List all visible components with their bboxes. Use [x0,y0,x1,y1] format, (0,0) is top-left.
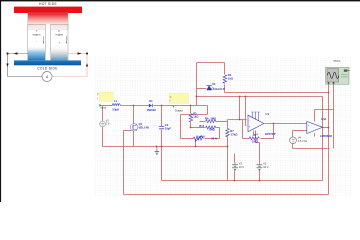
wire bottom right [52,76,87,78]
svg-text:1 V: 1 V [106,122,110,125]
battery V4 [290,137,297,144]
svg-text:TL431ACLP: TL431ACLP [210,87,225,91]
svg-text:D1: D1 [149,99,153,103]
potentiometer R12 [194,137,204,140]
wire: gate drive right riser [328,85,330,195]
svg-text:1N4032: 1N4032 [147,108,157,112]
n column carrier arrow [43,36,45,42]
wire: gate drive vertical [123,131,125,195]
resistor R5 (vertical) [189,114,193,122]
svg-text:V3: V3 [239,162,243,166]
wire: TL431 stub [197,88,207,90]
wire: middle block top [181,114,208,116]
frame left border [0,0,1,202]
junction node at (195.5,146.5) [195,146,197,148]
capacitor C2 [159,125,164,127]
svg-text:HOT SIDE: HOT SIDE [39,2,57,6]
wire: U1 feedback down [273,124,275,139]
junction node at (161.5,146.5) [161,146,163,148]
wire: middle block left [180,115,182,139]
junction node at (328.5,92.5) [328,92,330,94]
wire: U1 plus stub [246,125,247,127]
wire: R13 left stub [191,127,206,129]
wire: V1 top lead [102,106,104,122]
svg-text:1MΩ: 1MΩ [252,139,259,143]
wire right horizontal [68,53,87,55]
battery V3 [232,164,238,166]
svg-text:Q1: Q1 [139,122,143,126]
svg-text:10 V: 10 V [263,165,269,169]
junction node at (328.5,127.5) [328,127,330,129]
svg-text:LM358AD: LM358AD [320,134,332,138]
wire: Q1 source [133,131,135,147]
mosfet Q1 [130,124,137,131]
probe Output marker [172,105,174,107]
wire: C2 bottom lead [161,130,163,147]
wire: V3 top lead [234,154,236,163]
wire: main top net [101,105,113,107]
wire: R9 top lead [227,120,229,129]
wire: inner bottom net left riser [161,147,163,181]
svg-text:L1: L1 [114,99,118,103]
op-amp U1 pins [252,112,260,135]
svg-text:Output: Output [175,108,183,112]
wire: middle riser [219,128,221,139]
svg-text:U4A: U4A [321,117,326,121]
junction node at (259.5,180.5) [259,180,261,182]
wire right vertical [86,54,88,77]
svg-text:-: - [308,129,309,133]
svg-text:OP07DP: OP07DP [265,132,276,136]
wire: R5 bottom lead [190,123,192,128]
wire: V4 bottom lead [292,144,294,149]
svg-text:V2: V2 [263,162,267,166]
wire: inner bottom net [162,180,323,182]
wire: U4A output [323,127,329,129]
hot plate [14,7,82,13]
wire: pot tap to rail [195,140,197,147]
wire: R2 left riser [242,120,244,139]
probe Input: yellow box 1 [100,92,114,101]
wire: sense net horizontal [197,96,323,98]
svg-text:U1: U1 [266,112,270,116]
resistor R4 (vertical) [223,75,227,83]
wire: R6 right stub [216,121,228,123]
wire: U1 minus stub [228,119,247,121]
svg-text:region: region [33,33,41,37]
current arrow left-vert [6,64,8,67]
wire: R6 left stub [200,121,206,123]
wire: R13 right stub [216,127,220,129]
svg-text:BSL14B: BSL14B [139,125,149,129]
wire: R9 bottom lead [227,137,229,181]
junction node at (227.5,146.5) [227,146,229,148]
current arrow right [78,52,82,55]
probe Output: yellow box 2 [169,93,188,103]
svg-text:50µH: 50µH [113,108,120,112]
wire: U1 vminus lead [255,131,257,143]
schematic grid background [94,57,351,197]
op-amp U4A [307,121,323,133]
wire: U4A vplus riser [314,110,316,122]
wire left horizontal [8,53,29,55]
junction node at (245.5,96.5) [245,96,247,98]
wire: V2 bottom lead [259,171,261,181]
junction node at (273.5,123.5) [273,123,275,125]
current arrow right-vert [86,63,88,66]
junction node at (156.5,146.5) [156,146,158,148]
resistor R7 (vertical) [226,129,230,137]
probe Input marker [99,104,101,106]
wire: C2 top lead [161,106,163,127]
svg-text:region: region [55,33,63,37]
p column carrier arrow [65,36,67,42]
svg-text:R4: R4 [228,73,232,77]
inductor L1 [112,104,120,106]
junction node at (196.5,96.5) [196,96,198,98]
current arrow left [14,52,18,55]
svg-text:-: - [249,118,250,122]
svg-text:Key=A: Key=A [197,135,205,139]
wire: V2 top lead [259,143,261,163]
wire: TL431 branch riser [196,63,198,106]
wire: R5 top lead [190,106,192,114]
battery V2 [256,164,262,166]
wire: middle block corner [207,106,209,115]
voltage source V1 [100,121,106,127]
svg-text:4.5 V ba: 4.5 V ba [298,140,308,143]
svg-text:-: - [36,40,37,44]
wire: V4 top lead [292,131,294,137]
wire: V3 bottom lead [234,171,236,181]
svg-text:1MΩ: 1MΩ [210,116,217,120]
wire: V4 bottom rail [293,148,330,150]
wire: R4 to scope A [225,92,329,94]
resistor R13 (horizontal) [206,126,216,129]
resistor R2 (horizontal, feedback) [249,137,259,140]
diode D1 [149,104,152,108]
svg-text:V:: V: [97,93,100,96]
frame top border [0,0,360,1]
node dot right [86,53,88,55]
svg-text:1kΩ: 1kΩ [228,76,234,80]
svg-text:50 %: 50 % [211,137,218,141]
svg-text:17kΩ: 17kΩ [231,133,238,137]
wire: U4A vminus stub [314,133,316,136]
svg-text:1kΩ: 1kΩ [193,115,199,119]
svg-text:R6: R6 [205,116,209,120]
junction node at (239.5,96.5) [239,96,241,98]
wire: V1 bottom lead [102,127,104,147]
wire: Q1 gate stub [124,130,131,132]
cold plate [14,60,81,65]
wire: V4 top to U4A minus [293,130,307,132]
svg-text:+: + [58,41,60,45]
ammeter A1 [42,72,52,82]
svg-text:C2: C2 [165,123,169,127]
junction node at (190.5,105.5) [190,105,192,107]
svg-text:10 V: 10 V [239,165,245,169]
wire: pot right stub [205,138,220,140]
ground [156,147,158,152]
wire left vertical [7,54,9,77]
wire: bottom rail [103,146,228,148]
resistor R6 (horizontal) [206,120,216,123]
wire: drop to U1 plus [245,97,247,126]
svg-text:Input: Input [100,106,106,110]
junction node at (234.5,180.5) [234,180,236,182]
svg-text:R7: R7 [230,129,234,133]
svg-text:XSC1: XSC1 [333,59,341,63]
wire: R2 left stub [243,138,250,140]
wire: drop to U1 minus [239,97,241,120]
junction node at (239.5,119.5) [239,119,241,121]
svg-text:R13: R13 [199,124,204,128]
p-type column [51,30,68,61]
wire: TL431 box top [197,62,225,64]
wire: pot left stub [181,138,194,140]
wire: R4 bottom lead [224,85,226,93]
op-amp U1 [248,115,264,132]
svg-text:1MΩ: 1MΩ [209,127,216,131]
junction node at (190.5,127.5) [190,127,192,129]
wire: U1 vminus to V2 [256,142,260,144]
wire bottom left [8,76,43,78]
wire: scope B lead [333,85,335,149]
wire: R2 right stub [261,138,274,140]
junction node at (161.5,105.5) [161,105,163,107]
junction node at (133.5,105.5) [133,105,135,107]
wire: Q1 drain [133,106,135,124]
shunt reg U3 TL431 [206,85,212,90]
svg-text:10µF: 10µF [165,127,172,131]
n-type column [28,30,46,61]
wire: inner bottom right riser [322,97,324,181]
node dot left [7,53,9,55]
wire: R4 top lead [224,63,226,75]
wire: U1 output [265,123,307,125]
svg-text:R2: R2 [253,133,257,137]
wire: gate drive bottom [124,194,329,196]
wire: top right horizontal [315,109,334,111]
hot electrode gradient block [28,13,68,30]
svg-text:U3: U3 [212,82,216,86]
svg-text:COLD SIDE: COLD SIDE [37,66,58,70]
